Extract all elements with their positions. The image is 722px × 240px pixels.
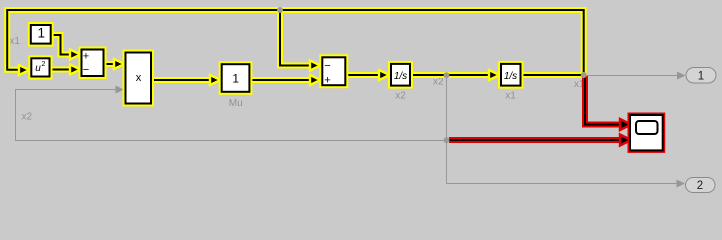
svg-text:x1: x1 (9, 36, 20, 47)
svg-text:+: + (83, 51, 89, 63)
integrator block x1 (501, 64, 521, 101)
sum block Sum2 (322, 57, 345, 86)
wire: integrator x2 to integrator x1 (411, 70, 500, 80)
outport 2 (686, 178, 716, 193)
wire: u2 to Sum1 minus (51, 65, 81, 75)
junction node x2 lower (444, 137, 450, 143)
wire: yellow branch to Sum2 minus (280, 10, 321, 71)
outport 1 (686, 68, 716, 84)
integrator block x2 (391, 64, 410, 101)
wire: gray x2 vertical branch (446, 75, 448, 140)
svg-text:u: u (35, 63, 41, 74)
svg-text:Mu: Mu (229, 98, 243, 109)
svg-text:2: 2 (697, 180, 703, 192)
wire: Sum1 to Product (105, 59, 125, 69)
junction node x1 (581, 72, 587, 78)
wire: gray x2 feedback to product (16, 86, 447, 141)
wire: Mu to Sum2 plus (251, 75, 321, 85)
wire: gray x2 to Out2 (447, 140, 686, 188)
junction node on top feedback (277, 7, 283, 13)
svg-text:−: − (324, 60, 330, 72)
wire: gray x1 to Out1 (584, 72, 686, 80)
wire: red x2 to Scope input 2 (449, 135, 631, 146)
wire: red x1 to Scope input 1 (585, 76, 631, 130)
gain block Mu (222, 64, 250, 109)
constant block 1 (31, 25, 51, 44)
product block x (126, 53, 152, 104)
svg-text:x: x (136, 72, 142, 84)
svg-text:x2: x2 (433, 77, 444, 88)
wire: yellow feedback x1 top (7, 10, 584, 75)
svg-text:+: + (324, 74, 330, 86)
svg-text:1: 1 (232, 71, 239, 85)
wire: Product to Mu (152, 75, 221, 85)
svg-text:x2: x2 (22, 112, 33, 123)
svg-text:1: 1 (37, 25, 45, 40)
svg-text:1: 1 (698, 70, 704, 82)
svg-text:−: − (83, 64, 89, 76)
svg-text:x1: x1 (505, 90, 516, 101)
svg-text:1/s: 1/s (394, 71, 407, 82)
svg-text:x2: x2 (395, 90, 406, 101)
sum block Sum1 (82, 50, 104, 77)
wire: Constant to Sum1 plus (52, 35, 81, 60)
math function block u^2 (31, 58, 49, 76)
scope block (630, 115, 663, 150)
junction node x2 (444, 72, 450, 78)
svg-text:2: 2 (42, 61, 46, 68)
svg-text:1/s: 1/s (504, 71, 517, 82)
wire: Sum2 to integrator x2 (346, 70, 390, 80)
wire: integrator x1 to junction (521, 72, 584, 78)
